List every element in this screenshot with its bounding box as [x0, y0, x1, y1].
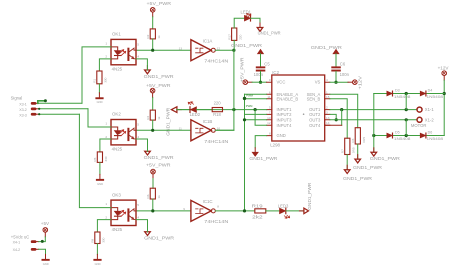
- wire SEN_A to R3: [330, 94, 358, 127]
- wire L298 GND pin to ground: [255, 136, 266, 148]
- svg-text:+5Vdc uC: +5Vdc uC: [11, 234, 30, 239]
- wire IC1A output: [215, 49, 234, 51]
- svg-text:GND: GND: [97, 182, 103, 186]
- svg-text:4: 4: [326, 78, 328, 82]
- wire diode left vertical to ground: [373, 94, 375, 153]
- svg-text:14: 14: [326, 121, 330, 125]
- LED LED2: [188, 102, 196, 113]
- resistor R3 0R5: [351, 128, 366, 144]
- svg-text:C6: C6: [340, 61, 346, 66]
- L298 pin stubs left: [267, 82, 272, 135]
- svg-text:2: 2: [105, 135, 107, 139]
- node junction OK3-R6: [151, 209, 154, 212]
- wire diode mid verticals: [405, 94, 407, 136]
- svg-text:INPUT3: INPUT3: [277, 117, 293, 122]
- node IC1A out / R17: [232, 49, 235, 52]
- LED LED3: [280, 208, 290, 218]
- wire OUT2-OUT3 jog: [330, 114, 336, 119]
- ground GND1_PWR (R3): [355, 159, 361, 163]
- wire OK2 pin1 to X3-2: [88, 109, 111, 127]
- wire R1 to GND: [98, 84, 100, 93]
- svg-text:OK2: OK2: [112, 112, 121, 117]
- svg-text:15: 15: [326, 95, 330, 99]
- wire OK3 pin1 to X3-3: [79, 114, 111, 207]
- svg-text:5: 5: [137, 203, 139, 207]
- svg-text:X3-1: X3-1: [19, 102, 27, 106]
- svg-text:+5V_PWR: +5V_PWR: [146, 83, 171, 88]
- svg-text:0R5: 0R5: [352, 147, 356, 153]
- svg-text:330: 330: [104, 156, 108, 161]
- optocoupler OK1 4N25: [111, 39, 136, 64]
- svg-text:11: 11: [179, 127, 182, 131]
- svg-text:1k: 1k: [157, 195, 161, 199]
- svg-text:R7: R7: [341, 149, 345, 153]
- svg-text:OK3: OK3: [112, 192, 121, 197]
- svg-text:1N5408: 1N5408: [427, 95, 444, 99]
- wire X4-1 to +5V: [44, 232, 46, 237]
- ground GND (X4-2): [42, 259, 50, 261]
- svg-text:X1-2: X1-2: [425, 117, 435, 122]
- pad X3-1: [31, 102, 37, 105]
- svg-text:GND1_PWR: GND1_PWR: [231, 43, 263, 48]
- capacitor C6 100n: [331, 66, 341, 71]
- svg-text:OUT3: OUT3: [309, 117, 321, 122]
- supply +5V_PWR (L298 VCC): [239, 57, 247, 85]
- svg-text:GND: GND: [97, 100, 103, 104]
- svg-text:PWM: PWM: [246, 104, 253, 108]
- wire OK1 pin2 to R1: [99, 59, 111, 71]
- svg-text:1N5408: 1N5408: [394, 137, 411, 141]
- wire X3-1 row: [39, 102, 82, 104]
- op-amp gate IC1A 74HC14N: [191, 40, 215, 61]
- ground GND (uC side) below R1: [95, 97, 103, 99]
- svg-text:1: 1: [105, 121, 107, 125]
- svg-text:VCC: VCC: [277, 80, 286, 85]
- svg-text:+5V_PWR: +5V_PWR: [239, 57, 244, 82]
- svg-text:GND1_PWR: GND1_PWR: [249, 156, 278, 161]
- svg-text:D3: D3: [395, 88, 400, 92]
- optocoupler OK3 4N25: [111, 200, 136, 225]
- svg-text:GND: GND: [43, 262, 49, 266]
- wire OK2 pin2 to R5: [100, 139, 111, 152]
- ground GND1_PWR (R7): [344, 170, 350, 174]
- svg-text:Signal: Signal: [11, 96, 23, 101]
- ground GND1_PWR arrow (LED3): [304, 208, 309, 214]
- op-amp gate IC1B 74HC14N: [191, 120, 215, 141]
- resistor R2 1k: [146, 29, 161, 39]
- wire X3-3 row: [39, 113, 80, 115]
- svg-text:1N5408: 1N5408: [394, 95, 411, 99]
- svg-text:100n: 100n: [340, 72, 350, 77]
- svg-text:C5: C5: [264, 61, 270, 66]
- wire R7 to ground: [346, 155, 348, 170]
- svg-text:2: 2: [105, 215, 107, 219]
- svg-text:1N5408: 1N5408: [427, 137, 444, 141]
- wire INPUT3: [245, 119, 267, 121]
- resistor R6 1k: [146, 188, 161, 199]
- wire INPUT2: [245, 113, 267, 115]
- resistor R19 2k2: [252, 203, 266, 219]
- wire ENABLE_B: [245, 98, 267, 100]
- wire C5 to VCC rail: [260, 71, 262, 82]
- svg-text:INPUT4: INPUT4: [277, 123, 293, 128]
- svg-text:R3: R3: [351, 138, 355, 142]
- resistor R1 330: [93, 71, 108, 84]
- svg-text:OUT2: OUT2: [309, 112, 321, 117]
- ground GND1_PWR above OK3 pin4: [145, 232, 151, 236]
- svg-text:R5: R5: [93, 157, 97, 161]
- svg-text:5: 5: [137, 42, 139, 46]
- svg-text:3: 3: [326, 110, 328, 114]
- svg-text:+5V_PWR: +5V_PWR: [146, 163, 171, 168]
- wire IC1B output: [215, 129, 234, 131]
- svg-text:74HC14N: 74HC14N: [204, 139, 228, 144]
- wire OUT1 row to X1-1: [330, 109, 417, 111]
- svg-text:1k: 1k: [157, 116, 161, 120]
- svg-text:9: 9: [183, 207, 185, 211]
- wire R6 to node: [152, 199, 154, 211]
- wire +5V to R6: [152, 174, 154, 179]
- wire LED3 to GND arrow: [286, 210, 304, 212]
- wire R19 to LED3: [266, 210, 280, 212]
- resistor R7 0R5: [341, 138, 356, 154]
- wire R8 to GND: [96, 244, 98, 255]
- svg-text:+5V_PWR: +5V_PWR: [147, 1, 172, 6]
- svg-text:OUT4: OUT4: [309, 123, 321, 128]
- svg-text:11: 11: [267, 95, 270, 99]
- svg-text:ENABLE_B: ENABLE_B: [277, 96, 299, 101]
- ground GND1_PWR arrow (LED2): [171, 107, 177, 113]
- svg-text:SEN_B: SEN_B: [307, 96, 321, 101]
- supply +5V_PWR (above R6): [146, 163, 171, 174]
- resistor R4 1k: [146, 110, 161, 120]
- wire OK3 pin2 to R8: [97, 220, 111, 232]
- ground GND1_PWR (L298 GND): [252, 152, 258, 156]
- svg-text:R2: R2: [146, 34, 150, 38]
- svg-text:74HC14N: 74HC14N: [204, 219, 228, 224]
- ground GND1_PWR (diodes): [371, 152, 377, 156]
- optocoupler OK2 4N25: [111, 120, 136, 145]
- diode D6 1N5408: [420, 133, 426, 138]
- svg-text:GND1_PWR: GND1_PWR: [307, 182, 312, 210]
- wire R2 to node: [152, 39, 154, 50]
- svg-text:R8: R8: [91, 239, 95, 243]
- resistor R18 220: [212, 101, 222, 117]
- wire R4 to node: [152, 120, 154, 130]
- capacitor C5 100n: [256, 66, 265, 71]
- wire IC1A/IC1B bus vertical: [217, 50, 234, 130]
- LED LED1: [245, 13, 251, 21]
- svg-text:9: 9: [269, 78, 271, 82]
- supply +12V (diodes): [438, 66, 450, 76]
- diode D5 1N5408: [387, 133, 393, 138]
- svg-text:13: 13: [179, 46, 183, 50]
- svg-text:R4: R4: [146, 116, 150, 120]
- svg-text:2: 2: [105, 55, 107, 59]
- node junction OK1-R2: [151, 49, 154, 52]
- ground GND1_PWR above OK1 pin4: [145, 70, 151, 74]
- wire INPUT1 row: [177, 109, 267, 111]
- svg-text:R1: R1: [93, 79, 97, 83]
- svg-text:8: 8: [217, 205, 219, 209]
- supply +5V_PWR (above R4): [146, 83, 171, 93]
- svg-text:L298: L298: [270, 143, 280, 148]
- svg-text:R6: R6: [146, 194, 150, 198]
- supply +5V (X4): [41, 221, 50, 232]
- svg-text:4: 4: [137, 55, 139, 59]
- wire INPUT1-INPUT4 jog: [255, 110, 267, 126]
- svg-text:GND1_PWR: GND1_PWR: [343, 176, 373, 181]
- svg-text:R18: R18: [213, 112, 221, 117]
- svg-text:4N25: 4N25: [112, 67, 123, 72]
- svg-text:GND: GND: [95, 262, 101, 266]
- svg-text:X3-3: X3-3: [19, 113, 27, 117]
- svg-text:MOTOR: MOTOR: [411, 123, 427, 128]
- wire IC1C output: [215, 210, 254, 212]
- svg-text:330: 330: [102, 237, 106, 242]
- wire OK3 out to IC1C: [136, 210, 191, 212]
- svg-text:5: 5: [137, 122, 139, 126]
- L298 pin numbers: [267, 78, 330, 135]
- svg-text:GND1_PWR: GND1_PWR: [370, 156, 401, 161]
- svg-text:7: 7: [269, 110, 271, 114]
- pad X3-2: [31, 108, 37, 111]
- resistor R8 330: [91, 232, 106, 244]
- IC U2 L298 motor driver: [267, 70, 330, 147]
- svg-text:D6: D6: [428, 130, 433, 134]
- diode D4 1N5408: [420, 91, 426, 96]
- svg-text:LED2: LED2: [190, 112, 201, 117]
- svg-text:R17: R17: [227, 34, 231, 40]
- svg-text:1: 1: [105, 41, 107, 45]
- wire VS to +12V: [330, 81, 348, 83]
- wire R3 to ground: [357, 144, 359, 159]
- resistor R5 330: [93, 152, 108, 163]
- svg-text:X1-1: X1-1: [425, 107, 435, 112]
- svg-text:IC1A: IC1A: [203, 38, 213, 43]
- svg-text:8: 8: [269, 132, 271, 136]
- svg-text:6: 6: [269, 90, 271, 94]
- ground GND (below R5): [96, 179, 104, 181]
- svg-text:1: 1: [105, 202, 107, 206]
- svg-text:OK1: OK1: [112, 32, 121, 37]
- supply +5V_PWR top (above R2): [147, 1, 172, 12]
- svg-text:X3-2: X3-2: [19, 108, 27, 112]
- svg-text:GND1_PWR: GND1_PWR: [144, 74, 175, 79]
- svg-text:X4-1: X4-1: [13, 240, 21, 244]
- wire +5V to R4: [152, 93, 154, 98]
- wire X3-2 row: [39, 108, 88, 110]
- svg-text:5: 5: [269, 106, 271, 110]
- wire OK2 out to IC1B: [136, 129, 191, 131]
- ground GND1_PWR above OK2 pin4: [145, 151, 151, 155]
- svg-text:GND1_PWR: GND1_PWR: [258, 30, 282, 35]
- svg-text:330: 330: [104, 77, 108, 82]
- svg-text:LED3: LED3: [278, 203, 289, 208]
- svg-text:IC1B: IC1B: [203, 119, 213, 124]
- supply +12V (VS): [353, 75, 363, 90]
- wire OK1 pin1 to X3-1: [82, 47, 111, 103]
- wire GND arrow to LED2: [177, 109, 190, 111]
- wire R17 top to LED1: [234, 18, 244, 50]
- wire OK2 pin4 to ground: [136, 139, 148, 151]
- svg-text:100n: 100n: [254, 72, 264, 77]
- resistor R17 220: [227, 28, 242, 40]
- svg-text:+12V: +12V: [358, 75, 363, 90]
- svg-text:4: 4: [137, 135, 139, 139]
- svg-text:2k2: 2k2: [252, 215, 264, 220]
- svg-text:GND: GND: [277, 133, 286, 138]
- ground GND (below R8): [93, 259, 101, 261]
- svg-text:+12V: +12V: [438, 66, 450, 71]
- svg-text:1k: 1k: [157, 35, 161, 39]
- svg-text:74HC14N: 74HC14N: [204, 59, 228, 64]
- wire X4-2 to GND: [39, 249, 46, 254]
- svg-text:GND1_PWR: GND1_PWR: [144, 236, 175, 241]
- pad X3-3: [31, 113, 37, 116]
- svg-text:PWM: PWM: [246, 93, 253, 97]
- svg-text:1: 1: [326, 90, 328, 94]
- wire X3-1 stub label: [38, 101, 45, 104]
- ground GND1_PWR (LED1): [257, 28, 263, 32]
- wire ENABLE bus vertical: [244, 94, 246, 211]
- svg-text:GND1_PWR: GND1_PWR: [311, 45, 343, 50]
- wire +5V_PWR to R2: [152, 12, 154, 17]
- svg-text:D5: D5: [395, 130, 400, 134]
- wire OK1 out to IC1A: [136, 49, 191, 51]
- wire ENABLE_A: [245, 93, 267, 95]
- svg-text:220: 220: [214, 101, 222, 106]
- svg-text:2: 2: [326, 106, 328, 110]
- op-amp gate IC1C 74HC14N: [191, 200, 215, 221]
- svg-text:GND1_PWR: GND1_PWR: [353, 165, 383, 170]
- svg-text:10: 10: [267, 116, 271, 120]
- svg-text:INPUT2: INPUT2: [277, 112, 293, 117]
- svg-text:D4: D4: [428, 88, 433, 92]
- svg-text:+5V: +5V: [41, 221, 50, 226]
- svg-text:0R5: 0R5: [362, 137, 366, 143]
- svg-text:LED1: LED1: [241, 9, 252, 14]
- wire OUT1-OUT4 jog: [341, 110, 343, 126]
- svg-text:13: 13: [326, 116, 330, 120]
- wire LED2 to R18: [197, 109, 213, 111]
- svg-text:4: 4: [137, 215, 139, 219]
- wire OK3 pin4 to ground: [136, 220, 148, 232]
- svg-text:4N25: 4N25: [112, 227, 123, 232]
- wire C6 to VS rail: [335, 71, 337, 82]
- node junction OK2-R4: [151, 129, 154, 132]
- wire diode top row: [374, 93, 444, 95]
- wire OUT3 row to X1-2: [330, 119, 417, 121]
- svg-text:GND1_PWR: GND1_PWR: [144, 155, 175, 160]
- wire diode bottom row: [374, 135, 444, 137]
- svg-text:IC2: IC2: [272, 70, 279, 75]
- svg-text:12: 12: [267, 121, 271, 125]
- L298 pin stubs right: [325, 82, 330, 125]
- svg-text:IC1C: IC1C: [203, 199, 213, 204]
- svg-text:VS: VS: [315, 80, 321, 85]
- diode D3 1N5408: [387, 91, 393, 96]
- connector X1-1: [417, 107, 422, 112]
- svg-text:4N25: 4N25: [112, 147, 123, 152]
- wire OK1 pin4 to ground: [136, 59, 147, 70]
- wire +5V to VCC pin: [248, 81, 253, 83]
- wire R5 to GND: [99, 162, 101, 174]
- svg-text:R19: R19: [252, 203, 264, 208]
- wire LED1 to GND1_PWR: [251, 18, 260, 27]
- svg-text:X4-2: X4-2: [13, 248, 21, 252]
- wire SEN_B to R7: [330, 99, 347, 138]
- connector X1-2: [417, 117, 422, 122]
- svg-text:220: 220: [238, 34, 242, 39]
- wire +12V rail down: [443, 76, 445, 81]
- svg-text:GND1_PWR: GND1_PWR: [166, 107, 171, 136]
